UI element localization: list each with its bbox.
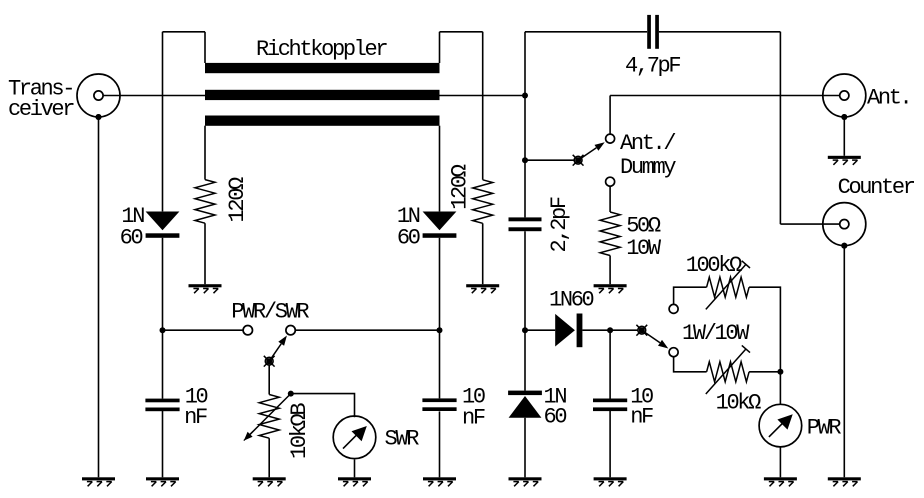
label D1 60	[120, 226, 143, 251]
wire pot to ground	[268, 438, 270, 477]
wire S2 to antenna jack	[610, 95, 840, 97]
svg-text:10W: 10W	[626, 236, 662, 261]
ground R3	[594, 284, 627, 293]
svg-text:50Ω: 50Ω	[626, 214, 661, 239]
wire node D to S1 left	[163, 329, 244, 331]
label C5 10	[630, 385, 653, 410]
wire x=162 diode to cap	[162, 238, 164, 399]
label D4 1N	[544, 385, 567, 410]
wire 120R right riser	[482, 32, 484, 180]
wire node A riser bottom	[524, 418, 526, 478]
junction transceiver shell	[96, 114, 102, 120]
junction counter shell	[841, 243, 847, 249]
svg-text:Ant./: Ant./	[620, 131, 675, 156]
wire S3 up throw to R5	[674, 287, 707, 304]
capacitor C5 10nF	[593, 399, 627, 412]
wire top-left riser x=162	[162, 32, 164, 212]
label D2 1N	[397, 204, 420, 229]
svg-text:nF: nF	[184, 405, 207, 430]
wire S1 right to node E	[295, 329, 439, 331]
label C3 2,2pF vertical	[547, 197, 572, 252]
wire x=439 diode down	[439, 238, 441, 399]
svg-text:Richtkoppler: Richtkoppler	[256, 37, 387, 62]
label R2 120R vertical	[448, 164, 473, 210]
junction node D pwr/swr left	[160, 327, 166, 333]
label PWR/SWR	[231, 300, 309, 325]
capacitor C3 2,2pF	[509, 217, 542, 231]
label 50R	[626, 214, 661, 239]
svg-text:Ant.: Ant.	[867, 86, 910, 111]
svg-text:Dummy: Dummy	[620, 155, 676, 180]
label D4 60	[544, 405, 567, 430]
svg-text:1W/10W: 1W/10W	[682, 321, 750, 346]
svg-text:120Ω: 120Ω	[225, 177, 250, 223]
svg-text:SWR: SWR	[385, 426, 420, 451]
wire into coupler top bar left	[204, 32, 206, 63]
trimmer R5 100k	[707, 277, 750, 297]
switch S1 PWR/SWR right contact	[286, 326, 295, 335]
wire coupler to node A	[440, 95, 526, 97]
directional coupler middle strip	[205, 90, 440, 100]
svg-text:60: 60	[544, 405, 567, 430]
wire node A to C2 left	[525, 31, 647, 33]
label R4 10kB vertical	[287, 403, 312, 459]
resistor R3 50R	[600, 212, 620, 256]
potentiometer R4 10kB	[259, 395, 279, 439]
switch S3 up contact	[669, 304, 678, 313]
diode D1 1N60	[146, 212, 180, 238]
svg-text:nF: nF	[630, 405, 653, 430]
wire x=439 cap to ground	[439, 411, 441, 477]
wire node A to D3	[525, 329, 555, 331]
wire node A to S2 common	[525, 159, 574, 161]
switch S1 PWR/SWR left contact	[243, 326, 252, 335]
label Counter	[838, 175, 915, 200]
wire S2 dummy throw down	[609, 186, 611, 212]
svg-text:ceiver: ceiver	[8, 97, 74, 122]
svg-text:2,2pF: 2,2pF	[547, 197, 572, 252]
wire node A riser middle	[524, 231, 526, 390]
wire node B down to cap	[609, 330, 611, 398]
ground antenna	[828, 156, 861, 165]
label C5 nF	[630, 405, 653, 430]
wire pot wiper to meter	[291, 394, 355, 418]
junction node B	[607, 327, 613, 333]
junction node F meter	[777, 369, 783, 375]
directional coupler bottom strip	[205, 116, 440, 126]
ground C1	[146, 477, 179, 486]
wire 50R to ground	[609, 256, 611, 285]
wire counter riser	[779, 32, 781, 224]
wire coupler bottom bar right down	[439, 126, 441, 212]
capacitor C1 10nF	[145, 399, 179, 412]
label PWR	[807, 415, 842, 440]
ground transceiver	[82, 477, 115, 486]
junction node A main	[522, 93, 528, 99]
junction pot wiper	[288, 391, 294, 397]
switch S3 lever arrow	[642, 330, 669, 348]
label 4,7pF	[625, 54, 680, 79]
capacitor C4 10nF	[422, 398, 456, 411]
wire node B cap to ground	[609, 411, 611, 478]
junction antenna shell	[841, 114, 847, 120]
wire transceiver to coupler	[103, 95, 205, 97]
wire transceiver shell to ground	[98, 117, 100, 477]
junction node E pwr/swr right	[437, 327, 443, 333]
switch S3 common pole	[636, 325, 647, 336]
svg-text:1N60: 1N60	[549, 287, 594, 312]
ground D4	[509, 477, 542, 486]
trimmer R5 adjust arrow	[706, 261, 750, 310]
label Trans-	[8, 76, 73, 101]
wire to counter jack	[780, 223, 839, 225]
resistor R1 120R	[195, 180, 215, 224]
switch S3 down contact	[669, 348, 678, 357]
label D1 1N	[121, 204, 144, 229]
label R1 120R vertical	[225, 177, 250, 223]
wire antenna jack to ground	[843, 117, 845, 156]
switch S1 common pole	[264, 356, 275, 367]
switch S2 lever arrow	[578, 142, 605, 160]
label ceiver	[8, 97, 74, 122]
svg-text:60: 60	[120, 226, 143, 251]
svg-text:60: 60	[397, 226, 420, 251]
connector J3 counter	[823, 203, 866, 249]
label Dummy	[620, 155, 676, 180]
label 10W	[626, 236, 662, 261]
svg-text:120Ω: 120Ω	[448, 164, 473, 210]
resistor R2 120R	[473, 180, 493, 224]
wire 120R right to ground	[482, 223, 484, 284]
wire D3 to S3 common	[582, 329, 637, 331]
wire coupler top bar right up	[439, 32, 441, 63]
ground pot	[253, 477, 286, 486]
svg-text:100kΩ: 100kΩ	[686, 253, 742, 278]
wire SWR meter to ground	[354, 460, 356, 478]
wire S3 down throw to R6	[674, 357, 707, 372]
ground counter	[828, 477, 861, 486]
label C4 nF	[462, 406, 485, 431]
switch S2 dummy contact	[606, 177, 615, 186]
label Richtkoppler	[256, 37, 387, 62]
ground R2	[466, 284, 499, 293]
diode D4 1N60	[508, 391, 542, 418]
label SWR	[385, 426, 420, 451]
label Ant./	[620, 131, 675, 156]
connector J2 antenna	[823, 74, 866, 120]
label 10kR	[716, 391, 762, 416]
svg-text:PWR: PWR	[807, 415, 842, 440]
switch S2 common pole	[573, 155, 584, 166]
label D2 60	[397, 226, 420, 251]
connector J1 transceiver	[77, 74, 120, 120]
svg-text:10kΩ: 10kΩ	[716, 391, 762, 416]
wire C2 right to counter riser	[659, 31, 781, 33]
wire R5 right side down	[749, 287, 780, 404]
svg-text:4,7pF: 4,7pF	[625, 54, 680, 79]
diode D3 1N60	[555, 314, 582, 348]
capacitor C2 4,7pF	[647, 15, 659, 49]
junction node A detector	[522, 327, 528, 333]
wire PWR meter to ground	[779, 447, 781, 477]
label Ant.	[867, 86, 910, 111]
wire top bar to 120R right	[440, 31, 483, 33]
label C1 10	[185, 385, 208, 410]
label C1 nF	[184, 405, 207, 430]
wire top-left horizontal	[163, 31, 206, 33]
label 100kR	[686, 253, 742, 278]
label D3 1N60	[549, 287, 594, 312]
ground C5	[594, 477, 627, 486]
meter M2 PWR	[759, 404, 802, 447]
meter M1 SWR	[333, 416, 376, 459]
wire x=162 cap to ground	[162, 411, 164, 477]
svg-text:Counter: Counter	[838, 175, 915, 200]
wire 120R left to ground	[204, 223, 206, 284]
wire R6 to node F	[749, 371, 780, 373]
switch S1 lever arrow	[269, 336, 287, 362]
svg-text:PWR/SWR: PWR/SWR	[231, 300, 309, 325]
wire S1 common to pot	[268, 365, 270, 395]
ground SWR meter	[338, 477, 371, 486]
label C4 10	[462, 385, 485, 410]
ground PWR meter	[764, 477, 797, 486]
ground R1	[189, 284, 222, 293]
wire S2 ant throw up	[609, 96, 611, 135]
trimmer R6 adjust arrow	[706, 345, 750, 394]
trimmer R6 10k	[707, 362, 750, 382]
switch S2 ant contact	[606, 134, 615, 143]
diode D2 1N60	[423, 212, 457, 238]
svg-text:nF: nF	[462, 406, 485, 431]
svg-text:10kΩB: 10kΩB	[287, 403, 312, 459]
wire node A riser top	[524, 32, 526, 218]
ground C4	[423, 477, 456, 486]
directional coupler top strip	[205, 63, 440, 73]
wire counter jack to ground	[843, 246, 845, 477]
potentiometer R4 wiper arrow	[244, 394, 291, 441]
junction node A switch feed	[522, 157, 528, 163]
wire coupler bottom bar left down	[204, 126, 206, 180]
label 1W/10W	[682, 321, 750, 346]
